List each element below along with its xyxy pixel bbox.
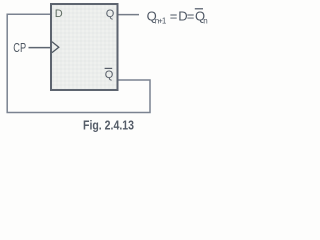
wire : Q output stub	[118, 14, 139, 16]
flip-flop U1 body	[51, 4, 118, 90]
svg-text:Q: Q	[106, 8, 115, 20]
svg-text:=: =	[170, 8, 178, 23]
wire : feedback loop from Qbar output around to D input	[7, 14, 150, 112]
svg-text:n+1: n+1	[155, 16, 167, 25]
svg-text:D: D	[55, 8, 63, 20]
wire : CP input	[29, 47, 52, 49]
equation Qn+1 = D = Qbar n	[147, 8, 208, 25]
svg-text:n: n	[203, 16, 207, 25]
svg-text:=: =	[187, 8, 195, 23]
clock edge triangle on CP pin	[52, 42, 59, 53]
svg-text:Fig. 2.4.13: Fig. 2.4.13	[83, 118, 134, 133]
svg-text:Q: Q	[105, 69, 114, 81]
svg-text:CP: CP	[13, 40, 26, 55]
